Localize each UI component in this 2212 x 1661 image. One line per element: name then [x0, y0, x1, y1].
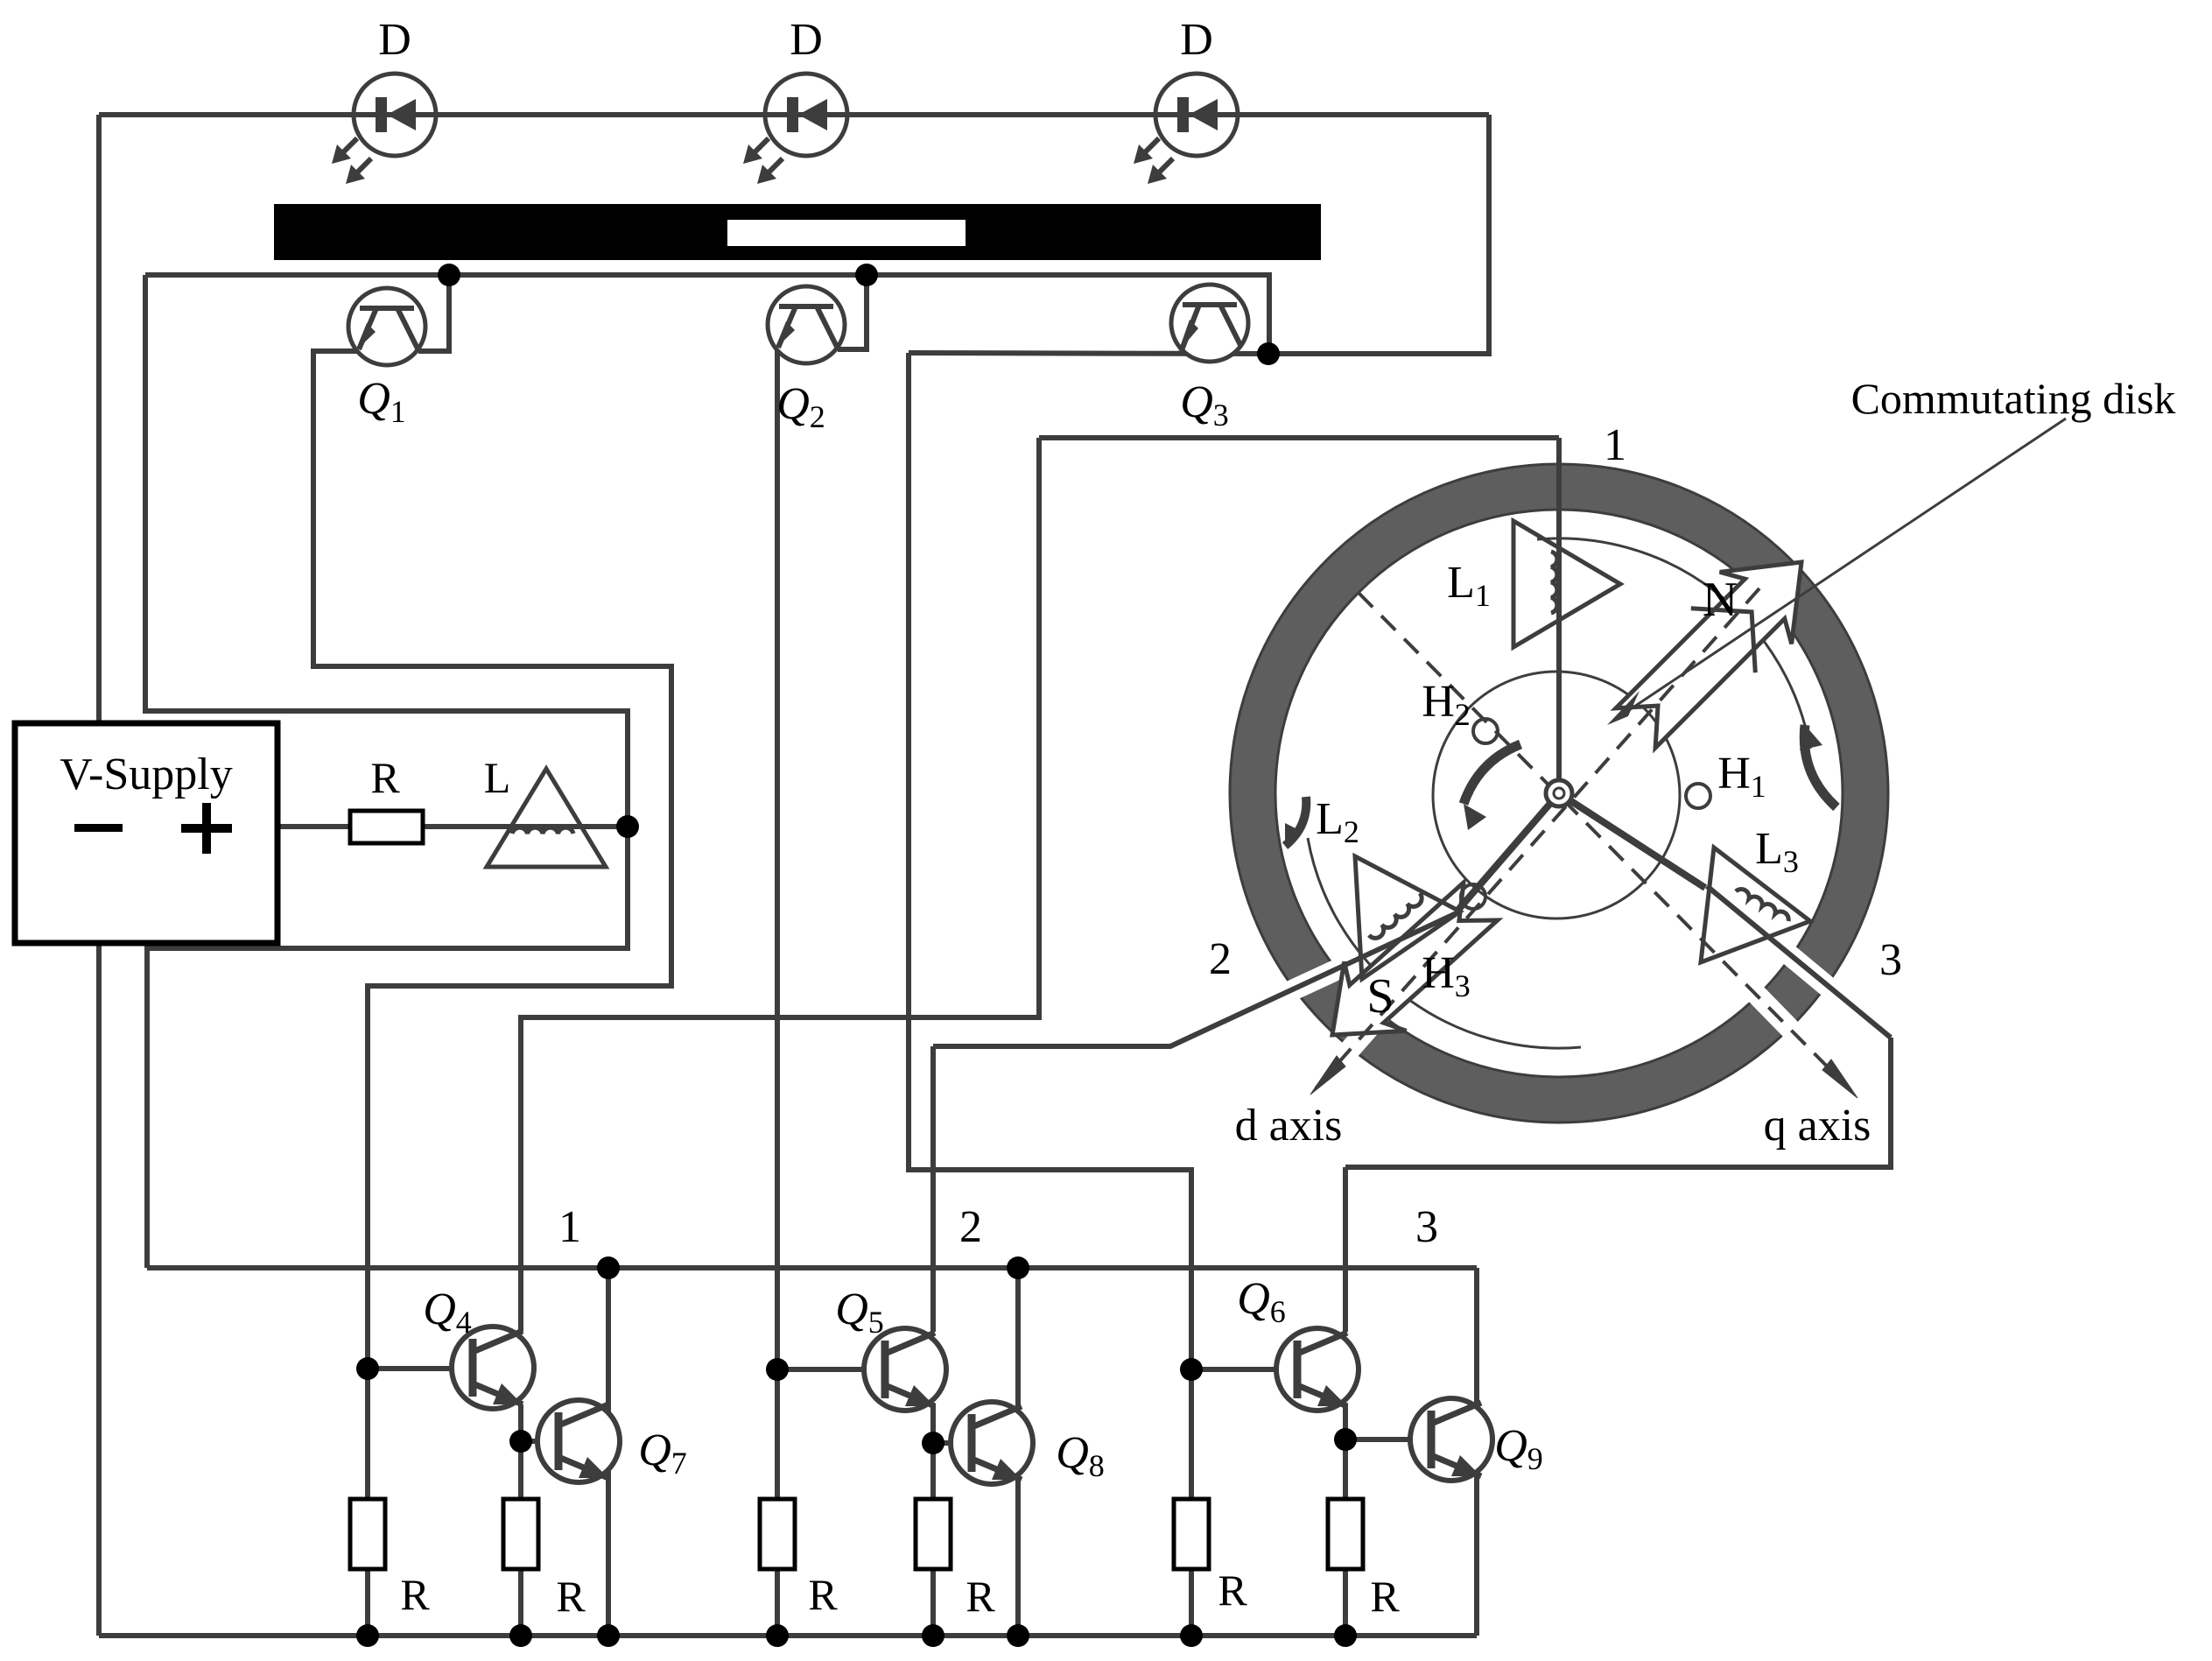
resistor R2 bottom: [503, 1499, 538, 1569]
ring gap for phase3 wire: [1787, 953, 1833, 991]
wire phase1 down to Q4 collector: [521, 438, 1039, 1332]
rotor N pole arrow: [1616, 562, 1801, 748]
wire rail-to-RL-node left link: [145, 275, 628, 827]
motor stator ring: [1230, 464, 1888, 1123]
junction dot 11: [597, 1256, 620, 1279]
wire Q3 emitter to Q6 base: [909, 353, 1191, 1501]
junction dot 19: [1180, 1624, 1203, 1647]
wire Q1 collector link: [418, 275, 449, 351]
wire Q3 emitter node horizontal: [909, 353, 1268, 354]
resistor R4 bottom: [916, 1499, 951, 1569]
resistor R6 bottom: [1328, 1499, 1363, 1569]
wire Q8 emitter to ground: [1015, 1473, 1021, 1636]
wire Q6 emitter to Q9 base: [1343, 1404, 1348, 1501]
junction dot 7: [1180, 1358, 1203, 1381]
junction dot 15: [597, 1624, 620, 1647]
svg-text:3: 3: [1415, 1202, 1438, 1252]
junction dot 14: [509, 1624, 532, 1647]
transistor Q7: [537, 1400, 620, 1482]
inductor L coil: [512, 827, 573, 834]
wire Q8 collector to rail: [1015, 1268, 1021, 1414]
LED D3: [1155, 74, 1238, 156]
svg-text:R: R: [1218, 1566, 1247, 1615]
wire Q8 base link: [933, 1440, 972, 1446]
phototransistor Q2: [768, 286, 845, 363]
commutating disk pointer line: [1616, 419, 2066, 719]
wire Q4 base link: [368, 1366, 452, 1371]
wire phase2 diagonal: [933, 911, 1460, 1046]
wire Q1 emitter to Q4 base: [313, 351, 671, 1501]
wire Q5 base resistor to ground: [775, 1569, 780, 1636]
junction dot 20: [1334, 1624, 1357, 1647]
svg-text:D: D: [1180, 15, 1213, 65]
wire Q4 emitter to Q7 base: [518, 1404, 523, 1501]
junction dot 17: [922, 1624, 944, 1647]
wire stage3 lower resistor to ground: [1343, 1569, 1348, 1636]
wire R to L: [423, 824, 628, 829]
svg-text:S: S: [1366, 969, 1394, 1024]
ring gap for d axis: [1336, 1014, 1381, 1066]
wire Q2 emitter to Q5 base: [775, 349, 780, 1501]
svg-text:3: 3: [1879, 935, 1902, 985]
svg-text:R: R: [400, 1570, 430, 1619]
wire Q7 emitter to ground: [606, 1471, 611, 1636]
ring gap for phase2 wire: [1243, 954, 1370, 1013]
winding L3 coil: [1736, 890, 1788, 922]
svg-text:V-Supply: V-Supply: [60, 750, 232, 799]
wire Q7 base link: [521, 1439, 558, 1444]
wire Q5 base link: [777, 1367, 864, 1372]
wire Q9 collector to rail: [1474, 1268, 1479, 1411]
LED D1: [354, 74, 436, 156]
winding spoke 3: [1559, 793, 1705, 888]
phototransistor Q3: [1171, 285, 1248, 362]
wire phase3 route: [1345, 1038, 1891, 1167]
wire Q9 base link: [1345, 1437, 1431, 1442]
svg-text:L: L: [484, 753, 511, 802]
wire phase1 motor terminal: [1556, 438, 1562, 793]
commutating disk circle: [1433, 672, 1680, 918]
wire bottom ground rail: [99, 1633, 1477, 1638]
winding L1 triangle: [1513, 521, 1620, 647]
V-Supply box: [15, 723, 277, 943]
svg-text:R: R: [556, 1572, 586, 1621]
V-Supply plus sign: [181, 824, 232, 833]
junction dot 4: [616, 815, 639, 838]
svg-text:2: 2: [959, 1202, 982, 1252]
junction dot 6: [766, 1358, 789, 1381]
svg-text:D: D: [790, 15, 823, 65]
wire phase1 horizontal: [1039, 435, 1559, 440]
svg-text:R: R: [1370, 1572, 1400, 1621]
inductor L triangle: [487, 769, 606, 867]
junction dot 2: [855, 264, 878, 286]
center hub: [1546, 780, 1572, 806]
hall sensor H1: [1686, 784, 1710, 808]
winding L1 coil: [1551, 552, 1557, 613]
svg-text:1: 1: [1604, 420, 1626, 470]
winding spoke 2: [1458, 793, 1559, 910]
rotor pole arc upper: [1537, 538, 1810, 749]
slot window: [727, 220, 966, 246]
junction dot 8: [509, 1430, 532, 1453]
winding L3 triangle: [1701, 848, 1810, 962]
resistor R5 bottom: [1174, 1499, 1209, 1569]
winding L2 triangle: [1355, 856, 1460, 979]
wire top LED supply rail: [99, 112, 1489, 117]
center hub inner: [1554, 788, 1564, 799]
wire phototransistor collector rail: [145, 275, 1269, 354]
resistor R series: [350, 811, 423, 843]
ring gap for q axis: [1752, 990, 1791, 1030]
wire LED return right vertical: [1268, 115, 1489, 354]
junction dot 18: [1007, 1624, 1029, 1647]
q axis dashed line: [1359, 593, 1852, 1092]
wire stage1 lower resistor to ground: [518, 1569, 523, 1636]
junction dot 12: [1007, 1256, 1029, 1279]
wire Q9 emitter to ground: [1474, 1469, 1479, 1636]
wire V-supply to R: [277, 824, 350, 829]
rotor N arrow inner chevron: [1691, 609, 1756, 673]
svg-text:N: N: [1703, 573, 1738, 627]
transistor Q8: [951, 1402, 1033, 1484]
slotted disk bar: [274, 204, 1321, 260]
resistor R3 bottom: [760, 1499, 795, 1569]
wire Q2 collector link: [838, 275, 867, 349]
wire Q6 base link: [1191, 1367, 1276, 1372]
transistor Q6: [1276, 1328, 1359, 1411]
svg-text:1: 1: [558, 1202, 581, 1252]
wire Q5 emitter to Q8 base: [930, 1404, 936, 1501]
wire Q4 base resistor to ground: [365, 1569, 370, 1636]
phototransistor Q1: [348, 288, 425, 365]
svg-text:D: D: [378, 15, 411, 65]
wire Q5 collector up: [930, 1046, 936, 1332]
svg-text:q axis: q axis: [1764, 1101, 1871, 1151]
q axis arrowhead: [1822, 1059, 1857, 1098]
svg-text:R: R: [966, 1572, 995, 1621]
junction dot 10: [1334, 1428, 1357, 1451]
junction dot 1: [438, 264, 460, 286]
svg-text:d axis: d axis: [1235, 1101, 1343, 1151]
svg-text:R: R: [370, 753, 400, 802]
transistor Q9: [1410, 1398, 1492, 1481]
d axis dashed line: [1316, 588, 1759, 1088]
wire Q6 collector up: [1343, 1167, 1348, 1332]
winding L2 coil: [1369, 893, 1422, 938]
junction dot 13: [356, 1624, 379, 1647]
LED D2: [765, 74, 847, 156]
rotation arrow near H2: [1464, 744, 1520, 804]
wire stage2 lower resistor to ground: [930, 1569, 936, 1636]
junction dot 9: [922, 1432, 944, 1454]
resistor R1 bottom: [350, 1499, 385, 1569]
d axis arrowhead: [1310, 1056, 1345, 1094]
svg-text:Commutating disk: Commutating disk: [1851, 374, 2176, 423]
rotor pole arc lower: [1308, 838, 1581, 1048]
wire Q6 base resistor to ground: [1189, 1569, 1194, 1636]
svg-text:R: R: [808, 1570, 838, 1619]
wire Q7 collector to rail: [606, 1268, 611, 1412]
wire phase3 diagonal: [1707, 886, 1891, 1038]
transistor Q4: [452, 1327, 534, 1409]
hall sensor H2: [1473, 719, 1498, 743]
rotor S pole arrow: [1332, 883, 1498, 1035]
junction dot 5: [356, 1357, 379, 1380]
transistor Q5: [864, 1328, 946, 1411]
V-Supply minus sign: [74, 824, 123, 832]
wire left V-supply vertical: [96, 115, 102, 1636]
svg-text:2: 2: [1209, 934, 1232, 984]
rotation arrow right: [1804, 725, 1836, 807]
hall sensor H3: [1461, 884, 1485, 909]
wire RL-node to driver collector rail: [147, 827, 628, 1268]
junction dot 16: [766, 1624, 789, 1647]
junction dot 3: [1257, 342, 1280, 365]
rotation arrow left near L2: [1285, 797, 1306, 846]
commutating disk pointer arrowhead: [1607, 691, 1640, 725]
wire driver collector rail: [147, 1265, 1477, 1270]
